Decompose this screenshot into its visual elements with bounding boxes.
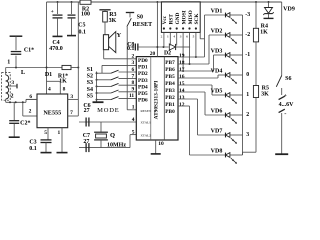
svg-text:VD3: VD3 [211,49,223,55]
svg-text:1: 1 [246,92,249,98]
svg-text:2: 2 [161,35,163,39]
svg-text:VD6: VD6 [211,109,223,115]
svg-text:MOSI: MOSI [181,10,187,24]
svg-text:D2: D2 [164,51,171,57]
svg-text:S4: S4 [87,87,93,93]
svg-text:C1*: C1* [24,47,34,53]
svg-text:C5: C5 [78,23,85,29]
svg-text:XTAL2: XTAL2 [141,134,152,138]
svg-text:S1: S1 [87,67,93,73]
svg-text:27: 27 [84,108,90,114]
svg-text:1: 1 [167,35,169,39]
svg-text:3: 3 [180,35,182,39]
svg-text:3: 3 [131,60,134,66]
svg-text:2: 2 [29,109,32,115]
svg-text:0.1: 0.1 [78,30,86,36]
svg-text:3K: 3K [109,18,117,24]
svg-text:0: 0 [246,72,249,78]
svg-text:PB4: PB4 [165,81,175,87]
svg-text:S5: S5 [87,93,93,99]
svg-text:C3: C3 [29,140,36,146]
svg-text:470.0: 470.0 [49,46,63,52]
svg-text:7: 7 [131,73,134,79]
svg-text:11: 11 [129,93,134,99]
svg-text:PD4: PD4 [138,84,148,90]
svg-text:GND: GND [175,12,181,24]
svg-text:1: 1 [7,60,10,66]
svg-text:PD6: PD6 [138,98,148,104]
svg-text:VD7: VD7 [211,129,223,135]
svg-text:1: 1 [58,130,61,136]
svg-text:14: 14 [179,88,185,94]
svg-text:10: 10 [158,141,164,147]
svg-text:16: 16 [179,74,185,80]
svg-text:4: 4 [48,86,51,92]
svg-text:100: 100 [81,12,90,18]
svg-text:NE555: NE555 [43,109,61,116]
svg-text:PB5: PB5 [165,74,175,80]
svg-text:2: 2 [11,94,14,100]
svg-text:15: 15 [179,81,185,87]
svg-text:-1: -1 [245,52,250,58]
svg-text:20: 20 [150,51,156,57]
svg-text:VD5: VD5 [211,89,223,95]
svg-text:5: 5 [193,35,195,39]
svg-text:19: 19 [179,53,185,59]
svg-text:Y: Y [116,32,121,39]
svg-text:VD4: VD4 [211,69,223,75]
svg-text:C2*: C2* [20,120,30,126]
svg-text:Q: Q [110,132,115,139]
svg-text:PD1: PD1 [138,65,148,71]
svg-text:3: 3 [70,94,73,100]
svg-text:PB0: PB0 [165,109,175,115]
svg-text:PB3: PB3 [165,88,175,94]
svg-text:6: 6 [29,94,32,100]
svg-text:PD0: PD0 [138,58,148,64]
svg-text:13: 13 [179,95,185,101]
svg-text:4...6V: 4...6V [279,102,295,108]
svg-text:0.1: 0.1 [29,146,37,152]
svg-text:-3: -3 [245,12,250,18]
svg-text:VD2: VD2 [211,29,223,35]
svg-text:3: 3 [246,132,249,138]
svg-text:SCK: SCK [194,13,200,25]
svg-text:3: 3 [11,80,14,86]
svg-text:2: 2 [131,54,134,60]
svg-text:AT90S2313-10PI: AT90S2313-10PI [154,81,160,120]
svg-text:XTAL1: XTAL1 [141,120,152,124]
svg-text:PD3: PD3 [138,78,148,84]
svg-text:VD8: VD8 [211,149,223,155]
svg-text:R3: R3 [109,12,116,18]
svg-text:RST: RST [169,14,175,25]
svg-text:0.1: 0.1 [127,46,134,52]
svg-text:6: 6 [131,67,134,73]
svg-text:5: 5 [44,130,47,136]
svg-text:-2: -2 [245,32,250,38]
svg-text:4: 4 [173,35,175,39]
svg-text:PB6: PB6 [165,67,175,73]
svg-text:D1: D1 [45,72,52,78]
svg-text:-: - [284,111,286,118]
svg-text:12: 12 [179,102,185,108]
svg-text:8: 8 [63,86,66,92]
svg-text:27: 27 [83,139,89,145]
svg-text:PD5: PD5 [138,91,148,97]
svg-text:Vcc: Vcc [162,15,168,24]
svg-text:MISO: MISO [188,10,194,24]
svg-text:3K: 3K [261,91,269,97]
svg-text:PB7: PB7 [165,60,175,66]
svg-text:8: 8 [131,80,134,86]
svg-text:4: 4 [132,117,135,123]
svg-text:VD1: VD1 [211,9,223,15]
svg-text:VD9: VD9 [283,7,295,13]
svg-text:18: 18 [179,60,185,66]
svg-text:7: 7 [70,110,73,116]
svg-text:L: L [21,69,26,76]
svg-text:RESET: RESET [141,109,152,113]
svg-text:1: 1 [132,105,135,111]
svg-text:RESET: RESET [132,22,152,28]
svg-text:+: + [284,93,287,99]
svg-text:1K: 1K [260,29,268,35]
svg-text:S2: S2 [87,74,93,80]
svg-text:PB1: PB1 [165,102,175,108]
svg-text:S0: S0 [137,15,143,21]
svg-text:2: 2 [246,112,249,118]
svg-text:S6: S6 [285,76,291,82]
svg-text:S3: S3 [87,80,93,86]
svg-text:PD2: PD2 [138,71,148,77]
svg-text:PB2: PB2 [165,95,175,101]
svg-text:5: 5 [132,129,135,135]
svg-text:6: 6 [186,35,188,39]
svg-text:9: 9 [131,87,134,93]
svg-text:+: + [51,9,54,15]
svg-text:17: 17 [179,67,185,73]
svg-text:MODE: MODE [97,107,119,114]
